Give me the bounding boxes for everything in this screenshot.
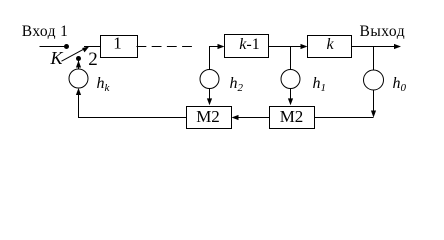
svg-text:М2: М2	[280, 107, 304, 126]
node: tap junction to h2	[210, 47, 219, 70]
switch K arm	[62, 46, 90, 61]
svg-text:h2: h2	[230, 75, 244, 94]
multiplier h2	[200, 70, 219, 89]
arrow into left M2	[232, 115, 239, 120]
node: tap junction to h1	[290, 47, 292, 70]
svg-text:Выход: Выход	[360, 23, 406, 40]
node: tap junction to h0	[373, 47, 375, 71]
svg-text:h0: h0	[393, 75, 407, 94]
wire switch to block 1	[84, 46, 101, 48]
svg-text:hk: hk	[97, 75, 111, 94]
svg-text:h1: h1	[313, 75, 327, 94]
block k (shift register cell k)	[308, 36, 352, 58]
wire into block k-1 with arrow	[217, 44, 225, 49]
wire and arrow into hk (from below)	[76, 88, 81, 96]
wire k-1 to k	[269, 46, 304, 48]
output wire with arrow	[352, 44, 402, 49]
dashed wire (cells 2..k-2)	[137, 46, 198, 48]
block 1 (shift register cell 1)	[101, 34, 138, 58]
block k-1 (shift register cell k-1)	[225, 35, 269, 58]
feedback wire h0 to right M2	[315, 117, 374, 119]
wire h1 to right M2	[290, 89, 292, 102]
svg-text:k-1: k-1	[239, 36, 259, 53]
arrow h2 into left M2	[207, 98, 212, 105]
svg-text:К: К	[50, 48, 64, 68]
switch contact 2 dot	[76, 56, 81, 61]
multiplier hk	[69, 69, 88, 88]
svg-text:2: 2	[88, 49, 98, 70]
switch K contact 1 dot	[64, 44, 69, 49]
arrow into contact 2 (upward)	[76, 61, 81, 68]
feedback wire left M2 to hk	[79, 93, 187, 118]
arrow h1 into right M2	[288, 98, 293, 105]
input wire	[40, 46, 67, 48]
svg-text:1: 1	[113, 34, 122, 53]
modulo-2 adder M2 (right)	[270, 107, 315, 129]
wire h2 to left M2	[209, 89, 211, 102]
arrow into block k	[301, 44, 308, 49]
multiplier h1	[281, 70, 300, 89]
svg-text:Вход 1: Вход 1	[22, 23, 69, 40]
multiplier h0	[364, 70, 384, 90]
wire hk to contact 2	[78, 60, 80, 69]
arrow onto feedback bus	[371, 111, 376, 118]
svg-text:М2: М2	[196, 107, 220, 126]
wire h0 down to feedback bus	[373, 90, 375, 117]
wire right M2 to left M2	[234, 117, 270, 119]
modulo-2 adder M2 (left)	[187, 107, 232, 129]
svg-text:k: k	[326, 36, 334, 53]
